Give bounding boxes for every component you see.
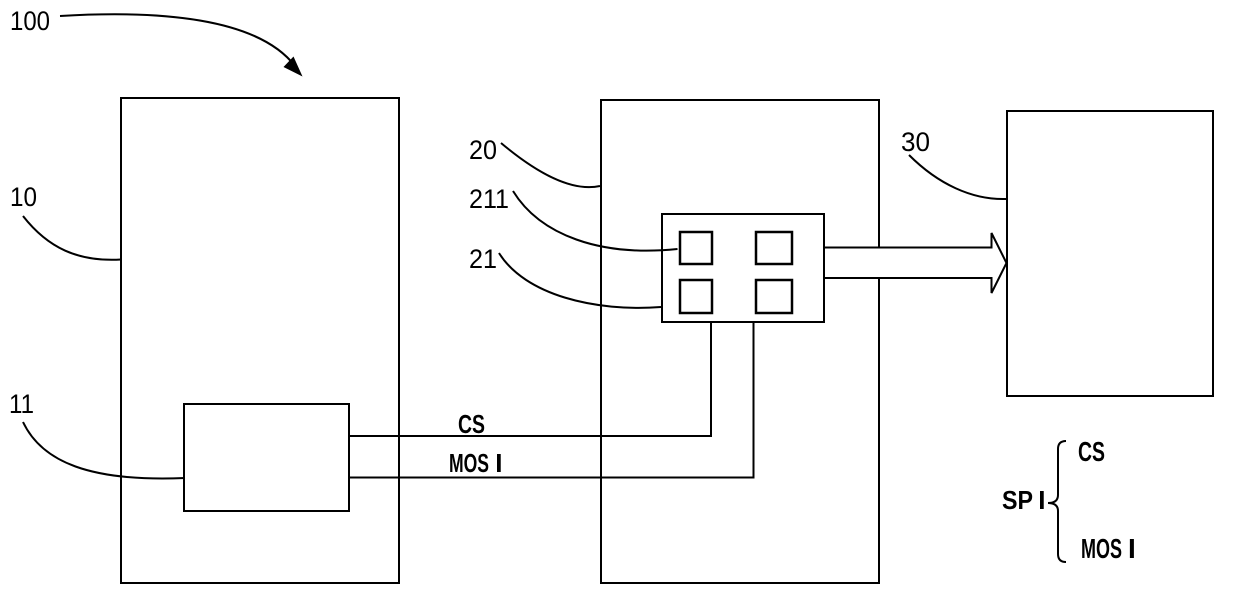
svg-text:SP: SP (1002, 485, 1033, 515)
svg-text:10: 10 (10, 182, 37, 212)
svg-text:20: 20 (469, 135, 497, 165)
svg-text:I: I (1128, 533, 1136, 564)
svg-text:21: 21 (469, 244, 497, 274)
svg-text:11: 11 (9, 389, 34, 419)
svg-text:100: 100 (10, 6, 50, 36)
svg-text:211: 211 (469, 184, 509, 214)
svg-text:I: I (495, 448, 502, 478)
svg-text:CS: CS (1078, 436, 1105, 467)
svg-text:MOS: MOS (1081, 533, 1122, 564)
svg-text:30: 30 (901, 127, 930, 157)
svg-text:MOS: MOS (449, 448, 489, 478)
svg-text:CS: CS (458, 409, 485, 439)
svg-text:I: I (1038, 485, 1045, 515)
